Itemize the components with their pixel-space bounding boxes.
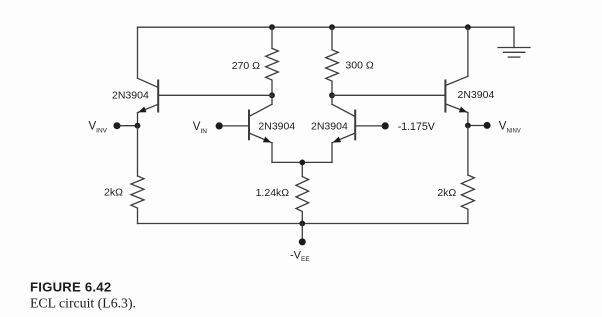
svg-text:2N3904: 2N3904	[458, 89, 495, 101]
transistor Q1 2N3904	[138, 78, 159, 126]
label Q1 2N3904	[112, 90, 149, 102]
terminal VINV	[114, 122, 141, 129]
node tail junction	[299, 160, 305, 166]
resistor R4 1.24k	[296, 162, 309, 223]
caption figure number	[30, 280, 111, 295]
label VINV	[89, 121, 108, 135]
node bottom rail junction	[299, 221, 305, 227]
node collector Q2 / 270-ohm top junction	[269, 24, 275, 30]
svg-text:VIN: VIN	[193, 121, 207, 135]
wire emitter tail rail	[272, 161, 332, 163]
terminal -1.175V	[355, 122, 389, 129]
label R4 value 1.24k	[256, 187, 290, 199]
node Q3 collector / Q4 base junction	[329, 92, 335, 98]
svg-text:300 Ω: 300 Ω	[345, 60, 373, 72]
wire bottom rail	[138, 223, 468, 225]
resistor R5 2k right	[461, 126, 474, 224]
resistor R1 270 ohm	[266, 27, 279, 95]
label -1.175V	[398, 121, 436, 133]
wire Q4 base to node	[332, 94, 445, 96]
ground	[498, 27, 530, 57]
svg-text:ECL circuit (L6.3).: ECL circuit (L6.3).	[30, 295, 136, 311]
label R3 value 2k	[104, 186, 123, 198]
resistor R3 2k left	[131, 126, 144, 224]
svg-text:2kΩ: 2kΩ	[437, 187, 456, 199]
resistor R2 300 ohm	[326, 27, 339, 95]
wire Q1 base to node	[158, 94, 272, 96]
wire left collector drop	[137, 27, 139, 78]
terminal VNINV	[465, 122, 491, 129]
svg-text:VINV: VINV	[89, 121, 108, 135]
node collector Q3 / 300-ohm top junction	[329, 24, 335, 30]
svg-text:2kΩ: 2kΩ	[104, 186, 123, 198]
label R5 value 2k	[437, 187, 456, 199]
label -VEE	[290, 250, 310, 264]
svg-text:2N3904: 2N3904	[311, 121, 348, 133]
node Q2 collector / Q1 base junction	[269, 92, 275, 98]
node collector Q4 top junction	[465, 24, 471, 30]
transistor Q2 2N3904	[249, 95, 272, 162]
wire top rail VCC	[138, 26, 515, 28]
svg-text:-VEE: -VEE	[290, 250, 310, 264]
label VIN	[193, 121, 207, 135]
label R2 value 300 ohm	[345, 60, 373, 72]
caption figure title	[30, 295, 136, 311]
transistor Q3 2N3904	[332, 95, 355, 162]
svg-text:-1.175V: -1.175V	[398, 121, 436, 133]
label VNINV	[499, 121, 521, 135]
svg-text:270 Ω: 270 Ω	[232, 60, 260, 72]
svg-text:2N3904: 2N3904	[112, 90, 149, 102]
label Q2 2N3904	[258, 121, 295, 133]
terminal -VEE	[299, 224, 306, 246]
svg-text:1.24kΩ: 1.24kΩ	[256, 187, 290, 199]
svg-text:FIGURE 6.42: FIGURE 6.42	[30, 280, 111, 295]
transistor Q4 2N3904	[445, 27, 468, 125]
label Q3 2N3904	[311, 121, 348, 133]
terminal VIN	[216, 122, 249, 129]
svg-text:2N3904: 2N3904	[258, 121, 295, 133]
svg-text:VNINV: VNINV	[499, 121, 521, 135]
label R1 value 270 ohm	[232, 60, 260, 72]
label Q4 2N3904	[458, 89, 495, 101]
